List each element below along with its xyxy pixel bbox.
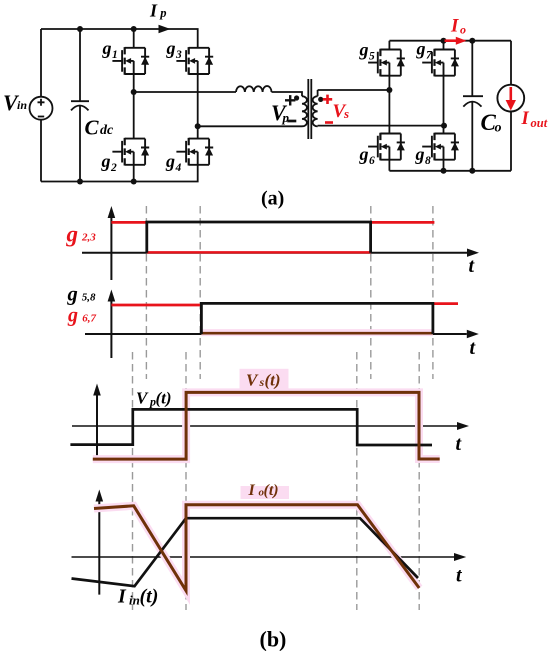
svg-text:8: 8 [425, 155, 431, 167]
svg-text:3: 3 [175, 49, 182, 61]
svg-text:g: g [359, 144, 369, 164]
svg-text:4: 4 [175, 162, 182, 174]
svg-text:in: in [129, 593, 140, 608]
svg-text:I: I [149, 1, 158, 21]
svg-text:2,3: 2,3 [81, 231, 96, 243]
svg-text:g: g [415, 144, 425, 164]
svg-text:5,8: 5,8 [82, 292, 96, 304]
svg-text:o: o [495, 121, 502, 136]
svg-text:p: p [159, 6, 166, 20]
svg-text:(t): (t) [264, 482, 279, 499]
svg-text:2: 2 [110, 162, 117, 174]
svg-text:t: t [456, 565, 463, 587]
svg-text:g: g [359, 40, 369, 60]
svg-text:(t): (t) [265, 370, 281, 389]
svg-text:g: g [165, 151, 175, 171]
svg-text:p: p [282, 110, 290, 125]
svg-text:I: I [450, 16, 459, 37]
svg-text:V: V [246, 370, 259, 389]
svg-text:I: I [248, 482, 256, 499]
svg-text:1: 1 [112, 49, 118, 61]
svg-text:C: C [85, 116, 100, 140]
svg-text:(a): (a) [261, 188, 284, 210]
svg-text:V: V [136, 388, 149, 407]
svg-text:I: I [521, 109, 530, 129]
svg-text:s: s [343, 106, 349, 121]
svg-text:6,7: 6,7 [82, 313, 96, 325]
svg-text:t: t [469, 255, 476, 277]
svg-text:g: g [101, 151, 111, 171]
svg-text:out: out [531, 116, 548, 130]
svg-text:(t): (t) [140, 586, 159, 608]
svg-text:o: o [460, 23, 466, 37]
svg-text:5: 5 [369, 51, 375, 63]
svg-text:(t): (t) [156, 388, 172, 407]
svg-text:g: g [416, 39, 426, 59]
svg-text:in: in [17, 98, 27, 112]
svg-text:g: g [102, 38, 112, 58]
svg-text:g: g [67, 304, 78, 326]
svg-text:g: g [166, 38, 176, 58]
svg-text:g: g [67, 283, 78, 305]
svg-text:(b): (b) [260, 627, 287, 651]
svg-text:t: t [470, 337, 477, 359]
svg-text:6: 6 [369, 155, 375, 167]
svg-text:dc: dc [100, 123, 114, 138]
svg-text:I: I [117, 586, 127, 608]
svg-text:t: t [456, 433, 463, 455]
svg-text:g: g [66, 221, 79, 246]
